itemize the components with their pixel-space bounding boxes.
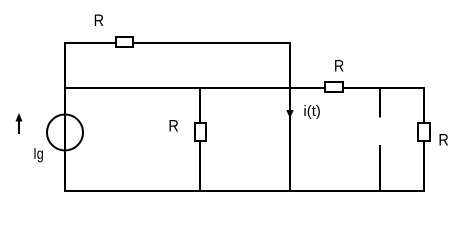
- resistor R1: [116, 37, 133, 47]
- wire i(t) vertical: [289, 42, 291, 192]
- resistor R3: [325, 82, 343, 92]
- wire middle vertical: [199, 87, 201, 192]
- wire bottom horizontal: [64, 190, 425, 192]
- wire right vertical: [423, 87, 425, 192]
- current source Ig circle: [47, 115, 83, 151]
- wire capacitor bottom segment: [379, 145, 381, 192]
- resistor R2: [195, 123, 206, 141]
- resistor R4: [418, 123, 430, 141]
- svg-text:R: R: [168, 118, 178, 136]
- current direction arrow (up, left of source): [18, 120, 20, 134]
- wire middle horizontal: [64, 87, 425, 89]
- svg-text:R: R: [438, 131, 448, 149]
- wire left vertical: [64, 42, 66, 192]
- svg-text:R: R: [334, 58, 344, 76]
- svg-text:i(t): i(t): [303, 103, 321, 120]
- svg-text:R: R: [94, 12, 104, 30]
- wire top horizontal: [64, 42, 291, 44]
- svg-text:Ig: Ig: [33, 146, 44, 163]
- wire capacitor top segment: [379, 87, 381, 118]
- current arrow i(t) on vertical wire: [286, 110, 293, 119]
